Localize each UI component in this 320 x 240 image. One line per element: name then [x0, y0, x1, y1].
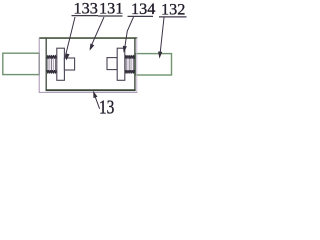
left spring coil bottom band — [47, 70, 57, 73]
arrowhead 131 — [90, 44, 95, 51]
housing 13 top edge — [39, 37, 137, 39]
left boss — [64, 58, 74, 70]
right plate — [117, 48, 125, 80]
underline 132 — [159, 16, 187, 18]
arrowhead 13 — [93, 91, 97, 98]
arrowhead 134 — [123, 46, 127, 53]
svg-text:132: 132 — [161, 0, 185, 18]
arrowhead 132 — [158, 51, 162, 58]
housing bottom edge — [46, 89, 136, 91]
right shaft — [135, 54, 171, 75]
svg-text:13: 13 — [99, 95, 115, 117]
leader line 131 — [90, 17, 104, 49]
leader line 132 — [160, 18, 164, 57]
left shaft — [3, 53, 39, 74]
left plate — [57, 48, 65, 80]
underline 131 — [98, 15, 123, 17]
right boss — [107, 58, 117, 70]
left spring coil top band — [47, 55, 57, 58]
housing right wall — [134, 38, 136, 92]
right spring coil verticals — [126, 58, 134, 71]
housing bottom outer edge — [39, 91, 138, 93]
housing left inner wall — [45, 38, 47, 92]
leader line 134 — [124, 17, 133, 51]
leader line 133 — [65, 17, 75, 59]
arrowhead 133 — [65, 53, 69, 60]
housing right wall ghost — [136, 38, 138, 93]
underline 134 — [128, 15, 154, 17]
svg-text:131: 131 — [99, 0, 123, 18]
svg-text:134: 134 — [131, 0, 155, 18]
underline 133 — [72, 15, 99, 17]
left spring coil verticals — [48, 58, 56, 71]
svg-text:133: 133 — [74, 0, 98, 18]
housing left outer wall — [38, 38, 40, 93]
leader line 13 — [94, 94, 100, 109]
right spring coil top band — [125, 55, 135, 58]
right spring coil bottom band — [125, 70, 135, 73]
